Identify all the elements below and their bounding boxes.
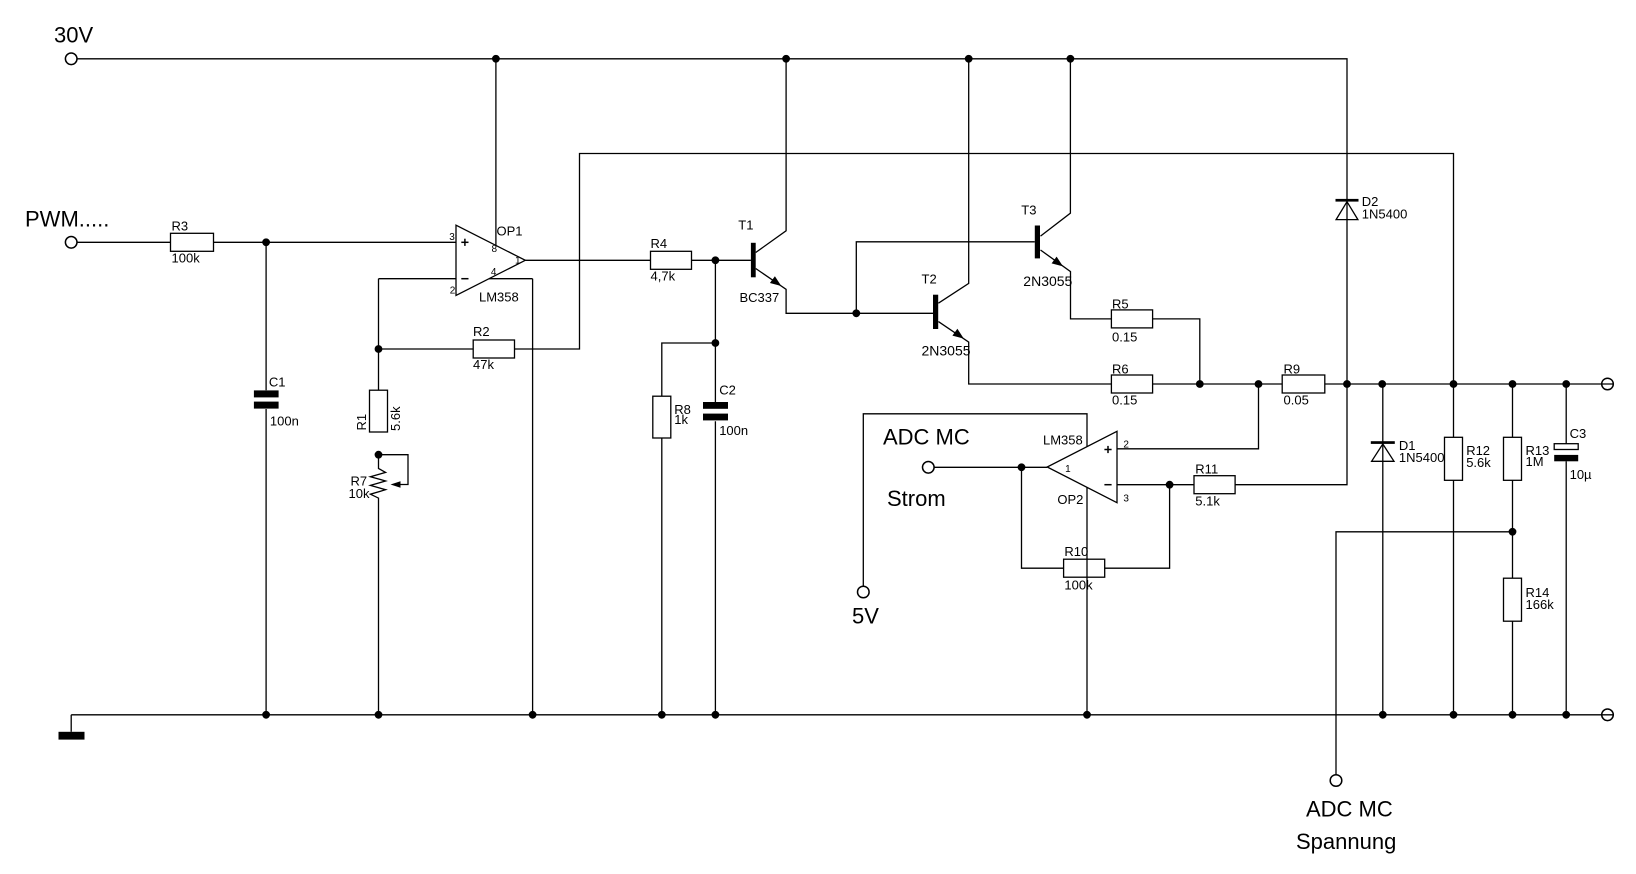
svg-text:30V: 30V bbox=[54, 23, 93, 48]
svg-text:R2: R2 bbox=[473, 324, 490, 339]
svg-text:LM358: LM358 bbox=[1043, 432, 1083, 447]
svg-text:2N3055: 2N3055 bbox=[1023, 273, 1072, 289]
svg-text:OP2: OP2 bbox=[1057, 492, 1083, 507]
svg-text:C3: C3 bbox=[1570, 426, 1587, 441]
svg-text:0.05: 0.05 bbox=[1284, 392, 1309, 407]
svg-text:LM358: LM358 bbox=[479, 289, 519, 304]
svg-text:0.15: 0.15 bbox=[1112, 392, 1137, 407]
svg-text:0.15: 0.15 bbox=[1112, 329, 1137, 344]
svg-text:100n: 100n bbox=[719, 423, 748, 438]
svg-text:100k: 100k bbox=[172, 250, 201, 265]
svg-text:3: 3 bbox=[1123, 494, 1129, 505]
svg-text:R1: R1 bbox=[354, 414, 369, 431]
svg-text:R5: R5 bbox=[1112, 297, 1129, 312]
svg-text:R4: R4 bbox=[651, 236, 668, 251]
svg-text:5.6k: 5.6k bbox=[388, 406, 403, 431]
svg-text:T2: T2 bbox=[922, 271, 937, 286]
svg-text:1M: 1M bbox=[1526, 454, 1544, 469]
svg-text:Spannung: Spannung bbox=[1296, 829, 1396, 854]
svg-text:10µ: 10µ bbox=[1570, 467, 1592, 482]
svg-text:R10: R10 bbox=[1064, 544, 1088, 559]
svg-text:C2: C2 bbox=[719, 383, 736, 398]
svg-text:ADC MC: ADC MC bbox=[883, 424, 970, 449]
svg-text:1: 1 bbox=[515, 256, 521, 267]
svg-text:R9: R9 bbox=[1284, 362, 1301, 377]
svg-text:Strom: Strom bbox=[887, 486, 946, 511]
svg-text:2: 2 bbox=[1123, 440, 1129, 451]
svg-text:100n: 100n bbox=[270, 413, 299, 428]
svg-text:166k: 166k bbox=[1526, 597, 1555, 612]
svg-text:R3: R3 bbox=[172, 219, 189, 234]
svg-text:4,7k: 4,7k bbox=[651, 269, 676, 284]
svg-text:PWM.....: PWM..... bbox=[25, 207, 109, 232]
svg-text:R6: R6 bbox=[1112, 362, 1129, 377]
svg-text:T3: T3 bbox=[1021, 203, 1036, 218]
svg-text:BC337: BC337 bbox=[740, 290, 780, 305]
svg-text:3: 3 bbox=[449, 232, 455, 243]
svg-text:8: 8 bbox=[492, 244, 498, 255]
svg-text:2: 2 bbox=[450, 285, 456, 296]
svg-text:R11: R11 bbox=[1195, 461, 1218, 476]
svg-text:OP1: OP1 bbox=[497, 223, 523, 238]
svg-text:1N5400: 1N5400 bbox=[1362, 207, 1408, 222]
svg-text:ADC MC: ADC MC bbox=[1306, 797, 1393, 822]
svg-text:5V: 5V bbox=[852, 604, 879, 629]
svg-text:1N5400: 1N5400 bbox=[1399, 450, 1445, 465]
svg-text:5.1k: 5.1k bbox=[1195, 493, 1220, 508]
svg-text:4: 4 bbox=[491, 267, 497, 278]
svg-text:C1: C1 bbox=[269, 374, 286, 389]
svg-text:100k: 100k bbox=[1064, 578, 1093, 593]
svg-text:5.6k: 5.6k bbox=[1466, 455, 1491, 470]
svg-text:T1: T1 bbox=[738, 218, 753, 233]
svg-text:2N3055: 2N3055 bbox=[922, 343, 971, 359]
svg-text:1: 1 bbox=[1065, 464, 1071, 475]
svg-text:47k: 47k bbox=[473, 357, 494, 372]
svg-text:10k: 10k bbox=[349, 486, 370, 501]
svg-text:1k: 1k bbox=[674, 412, 688, 427]
